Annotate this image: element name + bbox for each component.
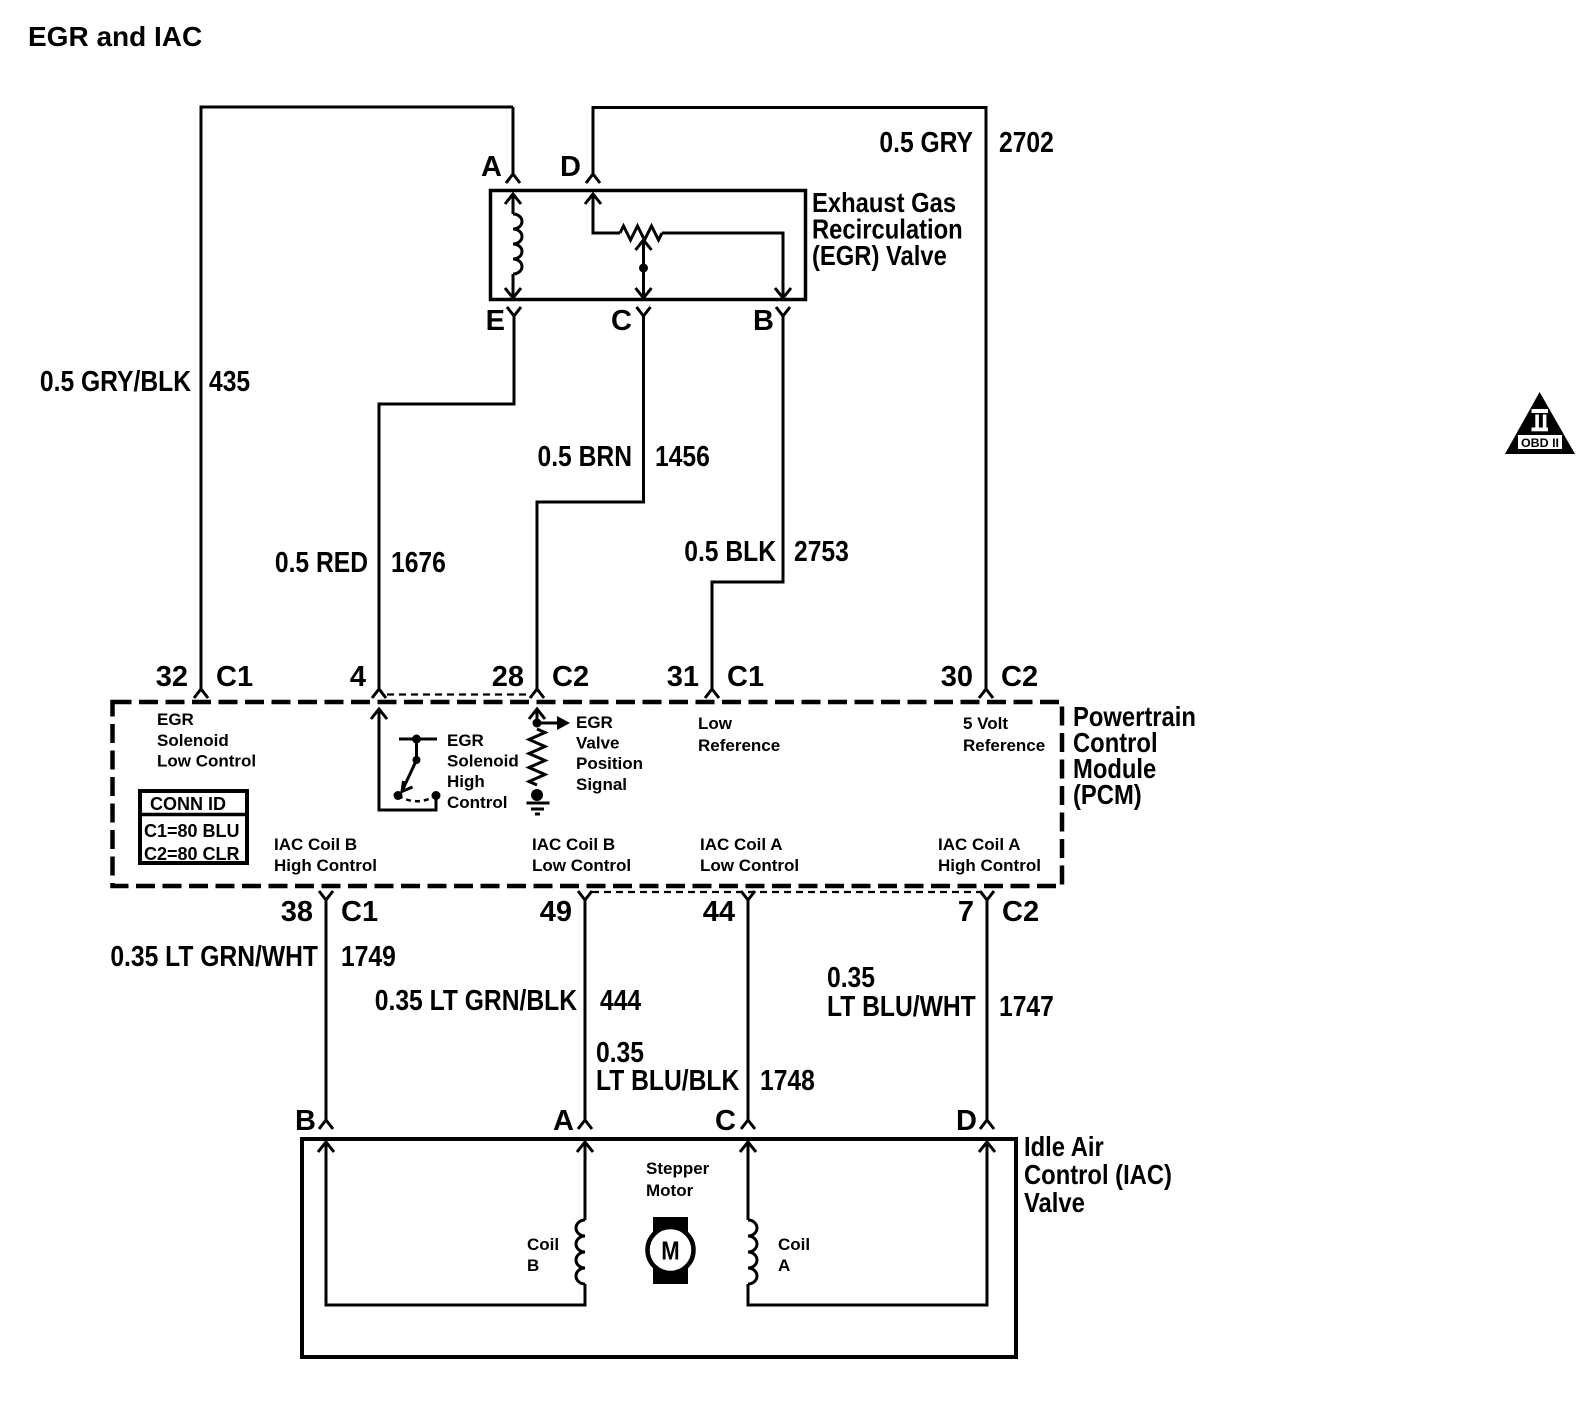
EGR valve box <box>491 191 806 300</box>
svg-text:C2: C2 <box>552 661 589 693</box>
wire 2702: EGR D to PCM 30 <box>593 108 986 690</box>
svg-text:High Control: High Control <box>938 856 1041 875</box>
svg-text:28: 28 <box>492 661 524 693</box>
svg-text:Stepper: Stepper <box>646 1159 710 1178</box>
svg-text:444: 444 <box>600 984 641 1016</box>
svg-text:Low Control: Low Control <box>700 856 799 875</box>
svg-text:Solenoid: Solenoid <box>447 752 519 771</box>
svg-text:B: B <box>753 305 774 337</box>
svg-text:IAC Coil B: IAC Coil B <box>274 835 357 854</box>
svg-text:31: 31 <box>667 661 699 693</box>
svg-text:Valve: Valve <box>1024 1186 1085 1218</box>
svg-text:Low: Low <box>698 714 733 733</box>
dashed link pin4-pin28 <box>387 693 531 695</box>
svg-text:0.5 BLK: 0.5 BLK <box>684 535 776 567</box>
svg-text:0.5 RED: 0.5 RED <box>275 546 368 578</box>
svg-text:(PCM): (PCM) <box>1073 778 1142 810</box>
svg-text:38: 38 <box>281 896 313 928</box>
svg-text:32: 32 <box>156 661 188 693</box>
svg-text:Reference: Reference <box>698 736 780 755</box>
svg-text:0.5 GRY/BLK: 0.5 GRY/BLK <box>40 365 192 397</box>
CONN ID table <box>140 791 247 864</box>
svg-text:Signal: Signal <box>576 775 627 794</box>
wire 2753: EGR B to PCM 31 <box>712 316 783 689</box>
svg-text:4: 4 <box>350 661 366 693</box>
svg-text:C: C <box>611 305 632 337</box>
wire 1456: EGR C to PCM 28 <box>537 316 644 689</box>
svg-text:B: B <box>527 1256 539 1275</box>
svg-text:LT BLU/WHT: LT BLU/WHT <box>827 990 976 1022</box>
svg-text:Valve: Valve <box>576 734 620 753</box>
svg-text:CONN ID: CONN ID <box>150 794 226 814</box>
svg-text:EGR: EGR <box>447 731 484 750</box>
svg-text:0.5 BRN: 0.5 BRN <box>538 440 632 472</box>
svg-text:1749: 1749 <box>341 940 396 972</box>
svg-text:C2=80 CLR: C2=80 CLR <box>144 844 240 864</box>
EGR solenoid driver (pin 4) <box>371 709 441 810</box>
wire 444: PCM 49 to IAC A <box>584 900 587 1120</box>
svg-text:1748: 1748 <box>760 1064 815 1096</box>
svg-text:Coil: Coil <box>527 1235 559 1254</box>
wire 435: EGR A to PCM 32 <box>201 107 513 689</box>
svg-text:LT BLU/BLK: LT BLU/BLK <box>596 1064 740 1096</box>
svg-text:Control: Control <box>447 793 507 812</box>
svg-text:Low Control: Low Control <box>532 856 631 875</box>
svg-text:A: A <box>553 1105 574 1137</box>
svg-text:D: D <box>560 151 581 183</box>
svg-text:EGR and IAC: EGR and IAC <box>28 21 202 52</box>
svg-text:High Control: High Control <box>274 856 377 875</box>
svg-text:1676: 1676 <box>391 546 446 578</box>
svg-text:C: C <box>715 1105 736 1137</box>
dashed link pin49-pin7 <box>592 891 980 893</box>
svg-text:IAC Coil A: IAC Coil A <box>938 835 1020 854</box>
svg-text:E: E <box>486 305 505 337</box>
svg-text:1747: 1747 <box>999 990 1054 1022</box>
IAC coil B circuit <box>318 1142 593 1305</box>
EGR valve position signal circuit (pin 28) <box>527 709 571 814</box>
svg-text:B: B <box>295 1105 316 1137</box>
svg-text:D: D <box>956 1105 977 1137</box>
svg-text:C2: C2 <box>1002 896 1039 928</box>
svg-text:C1=80 BLU: C1=80 BLU <box>144 821 240 841</box>
svg-text:0.35: 0.35 <box>827 961 875 993</box>
PCM dashed box <box>113 702 1063 886</box>
EGR solenoid coil (pin A to E) <box>505 194 522 298</box>
svg-text:0.35 LT GRN/BLK: 0.35 LT GRN/BLK <box>375 984 578 1016</box>
svg-text:2702: 2702 <box>999 126 1054 158</box>
OBD II symbol <box>1505 392 1575 454</box>
wire 1749: PCM 38 to IAC B <box>325 900 328 1120</box>
svg-text:Low Control: Low Control <box>157 752 256 771</box>
svg-text:2753: 2753 <box>794 535 849 567</box>
svg-text:(EGR) Valve: (EGR) Valve <box>812 239 947 271</box>
svg-text:Motor: Motor <box>646 1181 694 1200</box>
svg-text:C1: C1 <box>727 661 764 693</box>
wire 1748: PCM 44 to IAC C <box>747 900 750 1120</box>
svg-text:A: A <box>778 1256 790 1275</box>
svg-text:Reference: Reference <box>963 736 1045 755</box>
wire 1747: PCM 7 to IAC D <box>986 900 989 1120</box>
wiper arm (pin C) <box>636 240 652 298</box>
svg-text:High: High <box>447 772 485 791</box>
svg-text:C2: C2 <box>1001 661 1038 693</box>
svg-text:1456: 1456 <box>655 440 710 472</box>
svg-text:44: 44 <box>703 896 735 928</box>
svg-text:Solenoid: Solenoid <box>157 731 229 750</box>
IAC coil A circuit <box>740 1142 995 1305</box>
svg-text:0.35 LT GRN/WHT: 0.35 LT GRN/WHT <box>110 940 318 972</box>
stepper motor <box>648 1217 694 1284</box>
svg-text:Coil: Coil <box>778 1235 810 1254</box>
svg-text:C1: C1 <box>216 661 253 693</box>
svg-text:30: 30 <box>941 661 973 693</box>
svg-text:0.5 GRY: 0.5 GRY <box>879 126 973 158</box>
svg-text:OBD II: OBD II <box>1521 436 1559 450</box>
svg-text:Position: Position <box>576 754 643 773</box>
svg-text:IAC Coil B: IAC Coil B <box>532 835 615 854</box>
svg-text:EGR: EGR <box>576 713 613 732</box>
wire 1676: EGR E to PCM 4 <box>379 316 514 689</box>
svg-text:435: 435 <box>209 365 250 397</box>
svg-text:A: A <box>481 151 502 183</box>
svg-text:C1: C1 <box>341 896 378 928</box>
IAC valve box <box>302 1139 1016 1357</box>
svg-text:EGR: EGR <box>157 710 194 729</box>
svg-text:49: 49 <box>540 896 572 928</box>
svg-text:5 Volt: 5 Volt <box>963 714 1008 733</box>
svg-text:7: 7 <box>958 896 974 928</box>
svg-text:IAC Coil A: IAC Coil A <box>700 835 782 854</box>
svg-text:M: M <box>661 1237 679 1266</box>
EGR position sensor resistor (pin D to B) <box>585 194 791 298</box>
